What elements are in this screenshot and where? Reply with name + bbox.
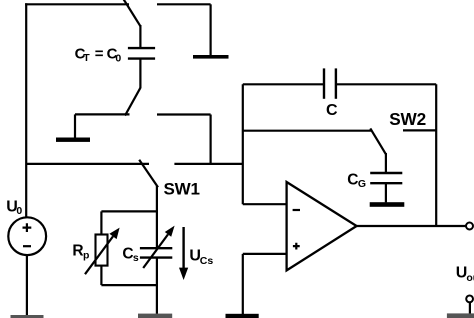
op-amp plus input sign [293,243,300,250]
wire CG bottom vertical [385,183,387,202]
svg-text:out: out [466,272,474,284]
ground bar under CG [370,202,405,207]
wire feedback top right horizontal [336,83,436,85]
wire parallel branch top horizontal [101,210,156,212]
voltage source minus sign [23,245,31,247]
capacitor C plate right [335,68,337,98]
svg-text:=: = [95,46,104,63]
ground stub left [74,114,76,137]
capacitor Cs plate 1 [140,247,172,249]
op-amp U1 triangle [287,182,357,270]
svg-text:Cs: Cs [200,255,214,267]
switch lever top (CT branch, upper) [123,0,140,26]
wire down from CT block [210,115,212,165]
wire Rp bottom vertical [100,266,102,286]
output terminal upper circle [466,223,473,230]
wire parallel branch bottom horizontal [101,284,156,286]
ground bar under Cs (gray, clipped) [138,314,172,318]
svg-text:T: T [83,52,90,64]
wire CT upper vertical [139,25,141,48]
arrow UCs (voltage arrow) [182,227,184,269]
wire top rail right horizontal [157,3,211,5]
wire source to SW1 horizontal [26,163,149,165]
wire lower terminal stub [469,302,471,313]
wire to left ground [75,113,130,115]
wire right vertical to output [435,84,437,226]
label U0 (source) [6,198,22,217]
svg-text:R: R [72,243,83,260]
label Uout (clipped at edge) [456,265,474,284]
ground bar bottom-left (gray, clipped) [11,315,44,318]
wire Cs branch top vertical [156,186,158,248]
arrow of variable resistor Rp [85,236,113,274]
node vertical at inverting input [242,84,244,204]
svg-text:C: C [326,102,338,119]
svg-text:C: C [347,171,358,188]
switch lever bottom (CT branch, lower) [125,88,140,116]
wire SW2 right horizontal [403,129,436,131]
wire feedback top left horizontal [243,83,324,85]
arrow of variable capacitor Cs [143,234,168,268]
wire inverting input horizontal [243,203,287,205]
wire Cs branch bottom vertical [156,258,158,314]
wire CG top vertical [385,153,387,173]
svg-text:s: s [133,252,139,264]
label Cs [122,245,138,264]
ground bar under noninverting input [226,314,259,318]
wire left rail vertical [25,3,27,217]
svg-text:SW2: SW2 [389,109,426,129]
svg-text:0: 0 [115,53,121,65]
label CT = C0 [75,46,122,65]
svg-text:0: 0 [16,205,22,217]
capacitor CT plate 2 [128,57,155,59]
capacitor C plate left [323,68,325,98]
wire noninverting input horizontal [243,253,287,255]
ground bar left mid [56,138,90,142]
wire SW2 left horizontal [243,130,373,132]
output terminal lower circle [466,296,473,303]
capacitor CG plate 2 [370,182,402,184]
voltage source U0 circle [8,217,46,255]
ground bar bottom-right (gray, clipped) [447,313,474,318]
capacitor CT plate 1 [128,47,155,49]
wire to inverting node horizontal [174,163,242,165]
wire source bottom vertical [26,255,28,315]
wire output horizontal [356,225,466,227]
wire Rp top vertical [100,211,102,234]
wire noninverting to ground vertical [242,254,244,314]
ground bar upper middle [193,55,229,59]
svg-text:G: G [358,178,366,190]
wire CT block lower-right horizontal [157,113,211,115]
voltage source plus sign [23,223,32,232]
wire CT lower vertical [139,59,141,89]
switch SW1 lever [139,160,158,188]
capacitor Cs plate 2 [140,256,172,258]
label Rp [72,243,89,262]
wire down to upper ground [210,4,212,55]
label UCs [189,248,213,267]
capacitor CG plate 1 [370,172,402,174]
switch SW2 lever [370,128,385,154]
wire top rail left horizontal [25,3,129,5]
svg-text:SW1: SW1 [164,179,200,198]
op-amp minus input sign [293,209,300,211]
resistor Rp box [96,235,108,266]
label CG [347,171,366,189]
svg-text:p: p [83,249,89,261]
